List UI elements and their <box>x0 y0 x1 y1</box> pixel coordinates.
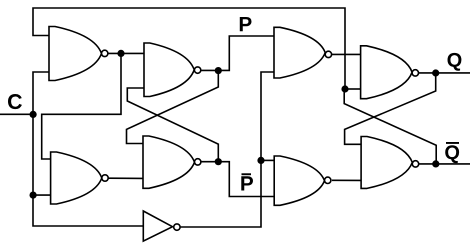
output bubble G2 <box>194 67 200 73</box>
output bubble inverter <box>174 224 180 230</box>
output bubble G6 <box>325 177 331 183</box>
wire: G5 output to G7 top input <box>332 53 361 55</box>
output bubble G3 <box>102 175 108 181</box>
wire: C node vertical with branches to G1, G3 and bottom rail to inverter <box>33 72 143 226</box>
nand gate G8 <box>361 137 412 189</box>
wire: diagonal Qbar feedback up to G7-bottom-input node <box>344 89 436 164</box>
wire: G3 output to G4 bottom input <box>108 177 143 179</box>
wire: G1 output branch down and left to G3 top input <box>42 53 121 159</box>
wire: inverter output up to G6 top input and G5 bottom input <box>180 72 274 227</box>
junction G7 bottom input node <box>341 85 348 92</box>
wire: C node stub into G3 lower input <box>33 194 51 196</box>
junction G1 output <box>117 50 124 57</box>
label Pbar <box>241 176 253 190</box>
output bubble G7 <box>412 70 418 76</box>
nand gate G6 <box>274 156 324 205</box>
junction node Q <box>432 69 439 76</box>
label P <box>240 17 252 31</box>
wire: node junction to G7 bottom input <box>345 88 361 90</box>
nand gate G2 <box>144 43 194 97</box>
output bubble G5 <box>325 51 331 57</box>
wire: G1 output to G2 top input <box>108 52 144 54</box>
label Q <box>448 53 462 71</box>
wire: C input horizontal <box>0 113 33 115</box>
wire: diagonal Q feedback down to G8 top input <box>345 73 436 144</box>
output bubble G4 <box>195 159 201 165</box>
junction node Qbar <box>432 160 439 167</box>
wire: diagonal G2 output to G4 top input <box>127 71 219 144</box>
junction inverter output at G6 input <box>257 157 264 164</box>
label C <box>8 94 22 109</box>
wire: Q output <box>419 72 471 74</box>
junction node C <box>29 111 36 118</box>
wire: top feedback from Qbar-node down-left to G1 top input <box>33 8 345 89</box>
junction node C lower (G3 input) <box>29 192 36 199</box>
wire: node Pbar G4 output down to G6 bottom input <box>201 162 274 197</box>
wire: stub into G6 top input <box>261 159 274 161</box>
wire: G6 output to G8 bottom input <box>332 179 361 181</box>
output bubble G1 <box>102 50 108 56</box>
junction G2 output (node P) <box>215 67 222 74</box>
output bubble G8 <box>412 161 418 167</box>
junction G4 output (node Pbar) <box>215 158 222 165</box>
label Qbar <box>445 145 459 163</box>
nand gate G7 <box>361 46 413 99</box>
wire: diagonal G4 output to G2 bottom input <box>127 88 218 162</box>
inverter U1 triangle <box>143 211 172 241</box>
nand gate G1 <box>49 27 102 81</box>
nand gate G5 <box>274 27 325 78</box>
wire: G2 output up to node P and G5 top input <box>201 36 274 70</box>
wire: Qbar output <box>419 163 470 165</box>
nand gate G4 <box>143 136 195 188</box>
nand gate G3 <box>51 152 102 204</box>
